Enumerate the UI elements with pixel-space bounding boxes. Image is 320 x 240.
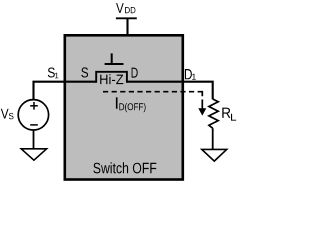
wire D (switch to RL) [127,82,213,100]
label RL [222,108,230,118]
channel hump (source-drain path) [96,72,127,83]
wire VS to ground [33,130,35,149]
ground right [202,149,227,161]
label VDD [116,3,124,13]
minus sign [30,124,38,126]
label Hi-Z [100,74,123,84]
wire RL to ground [212,128,214,149]
node S1 label [48,68,55,78]
ground left [21,149,46,160]
gate bar [105,63,124,65]
resistor RL [209,99,218,128]
wire S (VS to switch) [34,82,97,100]
switch body box U1 [65,35,183,179]
current arrow ID(OFF) [201,100,203,110]
dashed leakage path (horizontal) [103,91,202,93]
plus sign [30,105,38,107]
dashed leakage path (vertical) [201,91,203,101]
pin label S [81,67,88,77]
label Switch OFF [93,162,156,173]
gate lead [111,53,113,64]
VDD power bar [116,17,137,19]
node D1 label [185,69,192,79]
label ID(OFF) [116,97,118,108]
wire VDD to box [126,18,128,35]
source VS circle [18,100,48,130]
pin label D [132,68,138,78]
label VS [1,109,9,119]
